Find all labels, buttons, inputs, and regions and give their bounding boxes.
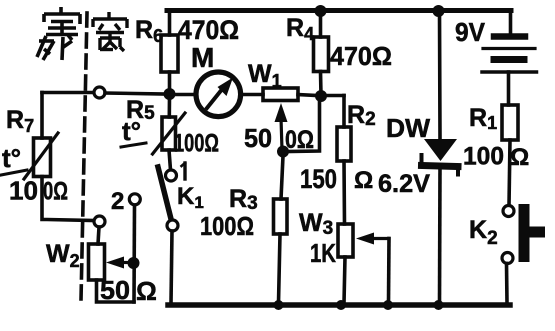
svg-text:10: 10 — [9, 176, 38, 206]
dashed boundary line between outdoor and indoor — [81, 13, 87, 300]
svg-text:150: 150 — [300, 164, 337, 194]
value 100Ω (R5) — [174, 130, 219, 158]
resistor R5 (thermistor) — [153, 97, 186, 170]
label R4 — [286, 14, 314, 44]
wire top supply rail — [167, 8, 511, 13]
label K2 — [469, 216, 498, 249]
svg-text:0Ω: 0Ω — [43, 178, 68, 206]
label 1 (K1 contact) — [182, 163, 186, 179]
switch K1 — [158, 167, 178, 303]
node: W1 wiper junction — [277, 146, 289, 158]
node: DW bottom on rail — [434, 300, 444, 310]
value 50Ω (W2) — [100, 275, 157, 306]
value 470Ω (R4) — [330, 41, 392, 71]
label R1 — [469, 104, 497, 133]
pushbutton switch K2 — [502, 204, 545, 303]
node: DW top on rail — [433, 5, 445, 17]
node: R2/W3 bottom on rail — [336, 300, 346, 310]
terminal (open circle) on dashed line, top — [94, 87, 105, 98]
W1 wiper arrow — [275, 103, 288, 150]
label R2 — [347, 101, 376, 130]
zener diode DW — [422, 11, 459, 303]
value 150Ω (R2) — [300, 164, 373, 194]
potentiometer W2 — [89, 227, 135, 302]
label t° (R7) — [1, 143, 27, 175]
label outdoor 室外 (hand-drawn strokes) — [37, 7, 80, 60]
resistor R4 — [314, 11, 329, 95]
terminal (open circle) on dashed line, bottom — [94, 216, 105, 227]
svg-text:470Ω: 470Ω — [330, 41, 392, 71]
label W2 — [46, 240, 80, 271]
svg-text:t°: t° — [122, 116, 141, 146]
resistor R7 (thermistor) — [24, 93, 94, 221]
svg-text:DW: DW — [386, 113, 430, 143]
label R3 — [229, 185, 258, 214]
battery 9V — [482, 11, 537, 105]
label W1 — [248, 60, 282, 91]
svg-text:9V: 9V — [455, 17, 486, 47]
label t° (R5) — [121, 116, 146, 147]
value 100Ω (R1) — [463, 143, 529, 172]
terminal 2 (open circle) — [129, 194, 140, 205]
node: R4 top on rail — [315, 5, 327, 17]
label R6 — [135, 16, 163, 46]
meter M — [175, 72, 263, 117]
value 500Ω (W1) — [244, 123, 314, 154]
label K1 — [177, 183, 204, 212]
svg-text:2: 2 — [111, 188, 124, 215]
wire bottom ground rail — [168, 302, 510, 308]
svg-text:100Ω: 100Ω — [174, 130, 219, 158]
wire terminal2 down to W2 wiper junction — [132, 205, 136, 302]
resistor R6 — [161, 11, 178, 93]
wire R4 junction down and left to wiper node — [286, 96, 320, 152]
label DW — [386, 113, 430, 143]
svg-text:Ω: Ω — [354, 167, 373, 194]
label R7 — [6, 106, 34, 136]
svg-text:100: 100 — [463, 143, 504, 171]
node: R3 bottom on rail — [274, 300, 284, 310]
node: W2 wiper junction — [128, 257, 140, 269]
resistor R2 — [337, 96, 351, 225]
svg-text:6.2V: 6.2V — [378, 170, 430, 198]
node: W3 wiper on rail — [383, 300, 393, 310]
wire R4 junction to R2 — [321, 94, 344, 98]
svg-text:470Ω: 470Ω — [178, 15, 239, 45]
W2 wiper arrow — [106, 257, 134, 269]
label R5 — [126, 96, 155, 124]
svg-text:M: M — [191, 42, 214, 73]
value 100Ω (R7) — [9, 176, 68, 206]
resistor R1 — [502, 105, 518, 206]
label 9V — [455, 17, 486, 47]
svg-text:Ω: Ω — [510, 144, 529, 171]
svg-text:t°: t° — [2, 143, 21, 173]
label indoor 窝 (hand-drawn strokes) — [93, 12, 127, 51]
svg-text:100Ω: 100Ω — [200, 211, 254, 241]
svg-text:50: 50 — [100, 275, 130, 305]
label M — [191, 42, 214, 73]
W3 wiper arrow and wire — [356, 233, 389, 304]
wire terminal to node — [105, 93, 165, 94]
potentiometer W1 — [263, 88, 316, 101]
label W3 — [299, 209, 333, 239]
value 6.2V (DW) — [378, 170, 430, 198]
wire from R7 corner to outdoor terminal — [42, 91, 94, 95]
resistor R3 — [274, 156, 288, 303]
svg-text:50: 50 — [244, 123, 272, 153]
node: junction of R6, R5, meter, left wire — [164, 88, 176, 100]
node: R4 bottom junction — [315, 90, 327, 102]
svg-text:1K: 1K — [310, 238, 336, 268]
svg-text:Ω: Ω — [136, 276, 157, 306]
value 470Ω (R6) — [178, 15, 239, 45]
potentiometer W3 — [338, 224, 353, 303]
value 1K (W3) — [310, 238, 336, 268]
value 100Ω (R3) — [200, 211, 254, 241]
label 2 — [111, 188, 124, 215]
